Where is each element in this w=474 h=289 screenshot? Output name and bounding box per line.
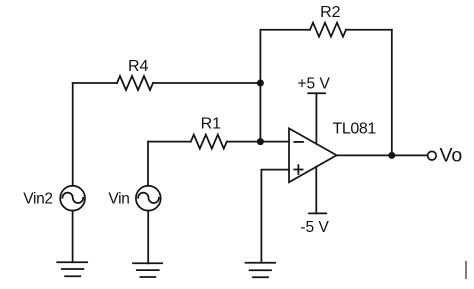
ground below Vin2 [57, 262, 87, 276]
svg-text:Vin: Vin [108, 191, 129, 208]
wire output column vertical [391, 30, 393, 156]
wire Vin to ground [147, 211, 149, 264]
wire -5V supply [315, 167, 317, 214]
wire from Vin2 column to R4 [73, 82, 117, 84]
wire from Vin column to R1 [148, 141, 191, 143]
svg-text:TL081: TL081 [333, 120, 377, 137]
wire +5V supply [315, 93, 317, 144]
wire from node column up and right to R2 [260, 30, 310, 142]
svg-text:Vo: Vo [440, 145, 463, 167]
svg-text:R1: R1 [201, 116, 222, 133]
op-amp U1 triangle [289, 128, 337, 182]
svg-text:Vin2: Vin2 [23, 191, 53, 208]
svg-text:R4: R4 [128, 58, 149, 75]
resistor R4 [117, 76, 153, 90]
ground below op-amp plus input [246, 263, 276, 278]
source Vin [136, 186, 161, 211]
terminal Vo open circle [428, 151, 437, 160]
svg-text:R2: R2 [320, 4, 341, 21]
wire from R2 to output column [346, 29, 392, 31]
wire Vin vertical [147, 142, 149, 186]
wire op-amp output to Vo terminal [337, 154, 428, 156]
-5V supply bar [309, 212, 326, 214]
wire op-amp non-inverting input [261, 170, 289, 263]
resistor R2 [310, 23, 346, 37]
wire Vin2 to ground [72, 211, 74, 263]
node A junction dot [257, 80, 264, 87]
source Vin2 [60, 186, 85, 211]
op-amp plus input symbol [294, 165, 302, 174]
node B junction dot [257, 138, 264, 145]
ground below Vin [133, 263, 162, 277]
+5V supply bar [308, 92, 325, 94]
wire from R1 to op-amp inverting input [227, 141, 289, 143]
wire Vin2 vertical [72, 83, 74, 186]
svg-text:-5 V: -5 V [300, 219, 329, 236]
node output junction dot [388, 152, 395, 159]
svg-text:+5 V: +5 V [298, 75, 331, 92]
op-amp minus input symbol [294, 141, 303, 143]
stray cursor mark [465, 261, 467, 279]
resistor R1 [191, 135, 227, 149]
wire from R4 to node A [153, 82, 260, 84]
